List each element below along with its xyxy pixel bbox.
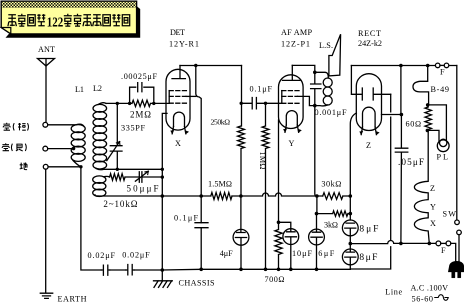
terminal 空(短) <box>43 122 48 127</box>
svg-text:0.001μF: 0.001μF <box>315 108 347 117</box>
svg-text:50μμF: 50μμF <box>127 184 159 194</box>
node 60/heater junction <box>426 129 430 133</box>
wire Z cathode right lead <box>382 114 402 116</box>
svg-text:F: F <box>441 246 446 255</box>
wire main ground rail <box>162 268 350 271</box>
svg-text:EARTH: EARTH <box>58 295 87 302</box>
title box <box>1 1 140 38</box>
resistor 30k <box>323 193 351 200</box>
svg-text:24Z-k2: 24Z-k2 <box>358 39 382 48</box>
capacitor 0.1uF cathode bypass <box>195 223 208 270</box>
resistor 60 ohm <box>425 105 431 130</box>
node B-49/60 junction <box>426 103 430 107</box>
svg-text:60Ω: 60Ω <box>406 120 422 129</box>
wire grid to tube X <box>154 102 169 104</box>
inductor L1 <box>71 124 85 167</box>
svg-text:Y: Y <box>289 139 295 148</box>
node L1 tap <box>72 147 75 150</box>
resistor 2M (grid leak) <box>130 100 154 106</box>
node grid cap right <box>152 102 155 105</box>
resistor 700 bias <box>275 222 282 269</box>
capacitor 4uF electrolytic <box>233 196 249 269</box>
label 地 terminal <box>20 163 27 170</box>
capacitor 0.02uF b <box>126 265 134 275</box>
speaker L.S. horn <box>329 34 341 76</box>
wire mid junction to fuse row (hop over plate line) <box>350 241 436 244</box>
svg-text:Line: Line <box>385 288 402 297</box>
node screen tie <box>194 64 197 67</box>
svg-text:DET: DET <box>170 28 185 37</box>
svg-text:6μF: 6μF <box>318 249 334 258</box>
wire top rail to left plate <box>351 66 356 95</box>
node 1.5M right / 4uF top <box>239 194 243 198</box>
node L1 bottom / earth branch <box>79 165 82 168</box>
svg-text:Z: Z <box>430 184 435 193</box>
svg-text:L.S.: L.S. <box>319 41 333 50</box>
chassis rail <box>81 167 162 270</box>
svg-text:8μF: 8μF <box>359 225 378 235</box>
svg-text:PL: PL <box>437 153 449 162</box>
wire OPT-B down <box>315 106 317 214</box>
title text 放送局型122号受信機回路図 (approximated glyph strokes) <box>8 14 130 26</box>
terminal 地 <box>43 164 48 169</box>
wire cathode X line <box>162 113 167 270</box>
wire 地 terminal to L1 bottom node <box>48 166 81 168</box>
svg-text:RECT: RECT <box>358 29 381 38</box>
node 30k B+ <box>349 194 353 198</box>
wire tickler bottom row <box>97 195 161 197</box>
antenna ANT <box>38 59 55 123</box>
svg-text:SW: SW <box>443 210 457 219</box>
wire Y cathode down <box>278 120 280 222</box>
svg-text:CHASSIS: CHASSIS <box>179 279 215 288</box>
wire ANT down to terminal <box>45 66 47 122</box>
svg-text:12Z-P1: 12Z-P1 <box>281 40 310 49</box>
svg-text:122: 122 <box>47 15 64 30</box>
svg-text:12Y-R1: 12Y-R1 <box>169 40 199 49</box>
svg-text:2MΩ: 2MΩ <box>130 110 151 120</box>
resistor 3k <box>317 211 351 216</box>
capacitor 8uF upper <box>342 220 358 244</box>
node grid-leak junction <box>199 194 203 198</box>
tube Y AF AMP 12Z-P1 <box>279 65 315 132</box>
wire plate branch down <box>241 66 243 127</box>
svg-text:L2: L2 <box>93 84 102 93</box>
node rail/B+ <box>399 64 403 68</box>
wire 地 down to earth <box>45 169 47 293</box>
fuse F top <box>435 63 440 68</box>
resistor 2~10k regen <box>110 174 140 181</box>
svg-text:L1: L1 <box>75 85 84 94</box>
svg-text:30kΩ: 30kΩ <box>321 180 341 189</box>
capacitor 335PF variable <box>107 142 122 170</box>
node OPT bottom <box>313 104 317 108</box>
svg-text:.00025μF: .00025μF <box>121 72 157 81</box>
svg-text:A.C .100V: A.C .100V <box>411 284 449 293</box>
node 0.1uF coupling tap <box>240 102 243 105</box>
inductor L2 <box>93 103 107 170</box>
node 8uF mid junction <box>349 242 353 246</box>
wire 335PF branch down <box>116 103 118 145</box>
node 335PF bottom <box>116 168 119 171</box>
switch SW <box>456 66 458 220</box>
wire B node row with hops <box>241 193 323 196</box>
capacitor 50uuF variable <box>135 171 162 182</box>
label 空(長) terminal <box>2 143 26 151</box>
node rail/B-49 <box>426 64 430 68</box>
svg-text:Y: Y <box>430 203 436 212</box>
svg-text:0.02μF: 0.02μF <box>88 251 116 260</box>
wire screen/grid-leak line <box>196 66 201 223</box>
capacitor 0.001uF tone <box>311 72 321 105</box>
capacitor 0.02uF a <box>101 265 110 275</box>
node L2 top / 335PF junction <box>116 102 119 105</box>
wire terminal to L1 tap <box>48 148 75 150</box>
node cathode/tickler/grid-return junction <box>161 194 165 198</box>
svg-text:ANT: ANT <box>38 45 55 54</box>
node B+ top <box>400 113 404 117</box>
terminal 空(長) <box>43 146 48 151</box>
ground earth symbol <box>40 293 52 298</box>
svg-text:4μF: 4μF <box>220 249 233 258</box>
svg-text:250kΩ: 250kΩ <box>211 118 231 127</box>
capacitor 10uF electrolytic <box>283 229 299 270</box>
wire L2 bottom row <box>104 168 162 170</box>
node heater bottom rail <box>428 242 432 246</box>
svg-text:0.1μF: 0.1μF <box>250 85 273 94</box>
node chassis junction <box>161 268 165 272</box>
ground chassis symbol <box>154 270 173 287</box>
node 3k B+ <box>349 212 353 216</box>
top rail <box>351 65 456 67</box>
heater string X Y Z <box>414 130 429 243</box>
svg-text:335PF: 335PF <box>121 124 145 133</box>
ballast B-49 <box>413 66 429 105</box>
resistor 1M grid Y <box>262 103 269 269</box>
svg-text:0.1μF: 0.1μF <box>174 214 198 223</box>
node 700/10uF junction <box>277 221 281 225</box>
svg-text:10μF: 10μF <box>292 249 312 258</box>
svg-text:Z: Z <box>366 141 371 150</box>
node 3k/6uF junction <box>315 212 319 216</box>
fuse F bottom <box>436 241 441 246</box>
inductor OPT / speaker coil <box>315 72 332 106</box>
svg-text:X: X <box>175 139 181 148</box>
tube Z RECT 24Z-k2 <box>356 74 390 135</box>
svg-text:X: X <box>430 219 436 228</box>
resistor 250k plate load <box>238 126 245 196</box>
svg-text:700Ω: 700Ω <box>265 275 285 284</box>
node dots on rail <box>199 268 203 272</box>
tube X DET 12Y-R1 <box>166 66 196 134</box>
svg-text:AF AMP: AF AMP <box>281 28 312 37</box>
resistor 1.5M grid leak <box>201 193 241 200</box>
wire plate rail X <box>180 65 242 67</box>
svg-text:8μF: 8μF <box>359 253 377 263</box>
node L2-bottom/cathode <box>161 168 164 171</box>
node coupling/1M <box>264 102 267 105</box>
capacitor .00025uF (grid cap) <box>130 83 154 104</box>
svg-text:1.5MΩ: 1.5MΩ <box>208 180 232 189</box>
wire Z cathode left lead to filter <box>350 113 356 220</box>
lamp PL pilot <box>427 105 449 152</box>
capacitor 6uF electrolytic <box>309 214 325 270</box>
wire to tube Y grid <box>266 102 282 104</box>
wire L2 top to grid network <box>106 102 130 104</box>
svg-text:2~10kΩ: 2~10kΩ <box>103 199 137 209</box>
svg-text:F: F <box>440 68 445 77</box>
svg-text:3kΩ: 3kΩ <box>324 221 338 230</box>
label 空(短) terminal <box>3 123 28 131</box>
node .05 bottom rail <box>399 242 403 246</box>
wire B+ vertical with .05uF <box>395 66 408 244</box>
wire plate Y to OPT <box>292 65 315 72</box>
capacitor 0.1uF coupling <box>241 98 265 109</box>
wire terminal to L1 top <box>48 124 76 126</box>
AC frequency symbol <box>435 295 448 301</box>
wire right plate down line <box>350 94 390 269</box>
inductor L3 tickler <box>93 176 110 197</box>
svg-text:56-60: 56-60 <box>412 295 434 302</box>
svg-text:.05μF: .05μF <box>398 157 424 167</box>
node 50uuF/cathode <box>161 175 164 178</box>
svg-text:B-49: B-49 <box>431 85 450 94</box>
svg-text:0.02μF: 0.02μF <box>122 251 150 260</box>
node OPT top <box>313 71 317 75</box>
plug AC <box>449 262 464 272</box>
svg-text:1MΩ: 1MΩ <box>258 152 267 170</box>
node OPT-B junction <box>315 194 319 198</box>
capacitor 8uF lower <box>342 244 358 269</box>
node grid cap left <box>128 102 131 105</box>
